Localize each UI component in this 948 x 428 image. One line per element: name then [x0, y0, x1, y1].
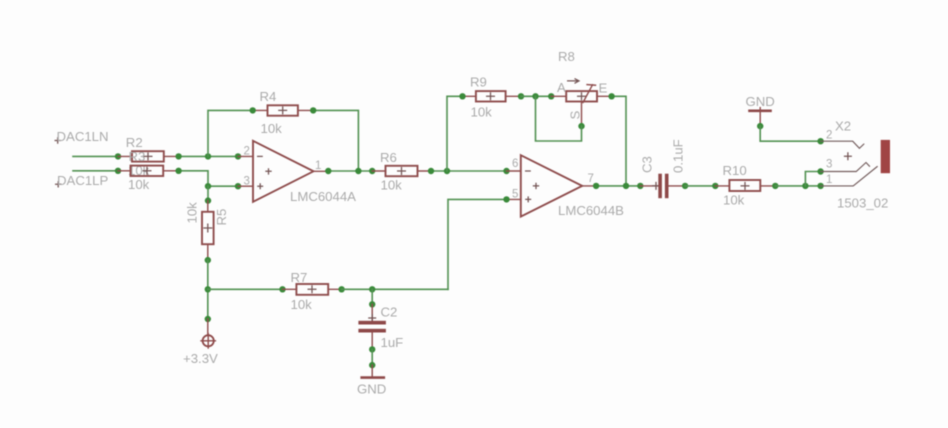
wire wiper to R9 row — [536, 96, 582, 141]
svg-text:2: 2 — [826, 130, 832, 142]
resistor R4 — [253, 89, 314, 136]
junction dot X2 pin2 end — [817, 138, 823, 144]
wire R9 to R8 — [521, 95, 551, 97]
svg-text:X2: X2 — [835, 119, 851, 134]
resistor R6 — [372, 150, 431, 193]
junction dot R7 row — [205, 286, 211, 292]
junction dot X2 pin3 end — [817, 168, 823, 174]
junction dot R6 left end — [369, 168, 375, 174]
junction dot R9 left — [459, 93, 465, 99]
svg-text:1: 1 — [315, 160, 321, 172]
svg-text:1: 1 — [826, 174, 832, 186]
svg-text:E: E — [599, 81, 608, 96]
svg-text:C2: C2 — [381, 305, 398, 320]
ground GND bottom — [357, 365, 386, 396]
wire up to R9 row — [447, 96, 463, 171]
junction dot R7 right end — [338, 286, 344, 292]
connector X2 jack 1503_02 — [821, 119, 890, 211]
svg-text:GND: GND — [746, 94, 775, 109]
wire C2 branch — [371, 289, 373, 304]
junction dot — [175, 168, 181, 174]
wire DAC1LP input — [73, 170, 118, 172]
svg-text:2: 2 — [244, 146, 250, 158]
svg-text:DAC1LP: DAC1LP — [57, 173, 109, 188]
wire opamp B output — [596, 185, 640, 187]
junction dot R4 vertical joins output — [355, 168, 361, 174]
junction dot — [115, 168, 121, 174]
wire pin5 — [448, 199, 507, 289]
junction dot R8 branch joins — [623, 183, 629, 189]
junction dot pin3 end — [235, 183, 241, 189]
svg-text:10k: 10k — [128, 177, 150, 192]
junction dot GND end — [757, 123, 763, 129]
junction dot R8 A end — [548, 93, 554, 99]
svg-text:R8: R8 — [558, 49, 575, 64]
junction dot R5 bottom end — [205, 257, 211, 263]
junction dot R9 right — [518, 93, 524, 99]
svg-text:R4: R4 — [260, 89, 277, 104]
svg-text:R10: R10 — [723, 163, 747, 178]
svg-text:C3: C3 — [640, 156, 655, 173]
svg-text:10k: 10k — [185, 202, 200, 224]
svg-text:A: A — [557, 80, 566, 95]
svg-text:+3.3V: +3.3V — [183, 351, 218, 366]
capacitor C2 — [358, 304, 403, 350]
svg-text:GND: GND — [357, 382, 386, 397]
junction dot C2 bottom end — [369, 346, 375, 352]
resistor R2 — [118, 135, 179, 162]
junction dot R9 tap — [444, 168, 450, 174]
junction dot C3 left end — [637, 183, 643, 189]
junction dot node R4 tap — [205, 153, 211, 159]
resistor R9 — [463, 75, 522, 120]
junction dot X2 pin1 end — [817, 183, 823, 189]
svg-text:10k: 10k — [723, 193, 745, 208]
svg-text:LMC6044B: LMC6044B — [558, 203, 624, 218]
junction dot R7 left end — [279, 286, 285, 292]
svg-text:6: 6 — [512, 158, 518, 170]
wire R4 feedback loop — [208, 110, 358, 171]
wire R5 branch — [207, 186, 209, 200]
junction dot — [175, 153, 181, 159]
junction dot C2 tap — [369, 286, 375, 292]
junction dot S end — [578, 123, 584, 129]
svg-text:R2: R2 — [126, 135, 143, 150]
svg-text:1uF: 1uF — [381, 335, 404, 350]
junction dot pin1 end — [325, 168, 331, 174]
supply +3.3V — [183, 319, 218, 366]
junction dot R6 right end — [428, 168, 434, 174]
ground GND top — [746, 94, 775, 126]
junction dot — [115, 153, 121, 159]
svg-text:R9: R9 — [470, 75, 487, 90]
svg-text:S: S — [568, 111, 583, 120]
op-amp U1A LMC6044A — [238, 141, 356, 204]
junction dot R8 E end — [608, 93, 614, 99]
wire GND to X2 pin2 — [760, 126, 820, 141]
svg-text:LMC6044A: LMC6044A — [290, 189, 356, 204]
resistor R7 — [283, 270, 342, 312]
junction dot R10 right end — [772, 183, 778, 189]
wire opamp A output — [328, 170, 372, 172]
wire DAC1LN input — [73, 155, 118, 157]
svg-text:R7: R7 — [291, 270, 308, 285]
junction dot X2 branch — [802, 183, 808, 189]
junction dot node pin3 — [205, 183, 211, 189]
svg-text:10k: 10k — [261, 121, 283, 136]
node DAC1LN label — [55, 129, 109, 144]
wire R7 row — [208, 288, 283, 290]
svg-text:1503_02: 1503_02 — [837, 196, 888, 211]
svg-text:DAC1LN: DAC1LN — [57, 129, 109, 144]
svg-text:R6: R6 — [380, 150, 397, 165]
node DAC1LP label — [55, 173, 109, 188]
svg-text:R3: R3 — [129, 149, 146, 164]
svg-text:10k: 10k — [471, 105, 493, 120]
junction dot pin7 end — [593, 183, 599, 189]
junction dot R5 top — [205, 197, 211, 203]
wire C3 to R10 — [685, 185, 715, 187]
op-amp U1B LMC6044B — [507, 155, 625, 218]
wire R8 E down to output — [612, 96, 626, 186]
wire to X2 pin3 — [805, 172, 820, 186]
svg-text:3: 3 — [826, 159, 832, 171]
junction dot C2 top end — [369, 301, 375, 307]
junction dot wiper tap — [532, 93, 538, 99]
svg-text:3: 3 — [244, 176, 250, 188]
wire R5 to R7 row — [207, 260, 209, 319]
svg-text:5: 5 — [512, 189, 518, 201]
junction dot pin5 end — [503, 196, 509, 202]
resistor R3 — [118, 149, 179, 192]
svg-text:10k: 10k — [291, 297, 313, 312]
svg-text:10k: 10k — [381, 178, 403, 193]
junction dot pin2 end — [235, 153, 241, 159]
wire R7 to pin5 branch — [342, 288, 448, 290]
wire R2 to pin2 — [179, 155, 238, 157]
junction dot C3 right end — [682, 183, 688, 189]
junction dot GND end bottom — [369, 362, 375, 368]
junction dot supply end — [205, 316, 211, 322]
capacitor C3 — [640, 139, 686, 198]
wire R3 to pin3 — [179, 171, 238, 186]
wire R10 to X2 pin1 — [775, 185, 820, 187]
svg-text:R5: R5 — [214, 209, 229, 226]
resistor R10 — [715, 163, 775, 208]
pin stub R8 S — [581, 102, 583, 127]
junction dot R4 left — [250, 107, 256, 113]
wire C2 to GND — [371, 349, 373, 365]
trimmer R8 — [551, 49, 611, 120]
junction dot R4 right — [310, 107, 316, 113]
svg-text:0.1uF: 0.1uF — [671, 139, 686, 173]
svg-text:7: 7 — [588, 173, 594, 185]
resistor R5 — [185, 201, 230, 261]
wire R6 to pin6 — [431, 170, 507, 172]
junction dot pin6 end — [503, 168, 509, 174]
junction dot R10 left end — [712, 183, 718, 189]
